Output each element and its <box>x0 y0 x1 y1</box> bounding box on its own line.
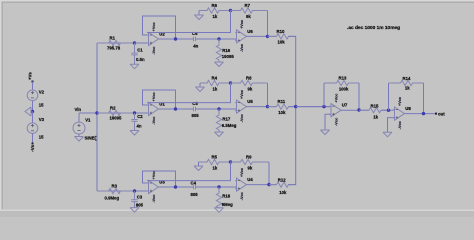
ground R5 <box>194 166 203 171</box>
svg-text:795.78: 795.78 <box>107 45 121 50</box>
svg-text:-Vcc: -Vcc <box>240 44 244 52</box>
svg-text:0.5n: 0.5n <box>136 57 145 62</box>
node U4 out <box>267 183 270 186</box>
wire C5 to U5 <box>196 108 237 110</box>
node U7 out <box>357 108 360 111</box>
node row3 C3 tap <box>133 189 136 192</box>
svg-text:C6: C6 <box>192 31 198 36</box>
resistor R13 <box>324 75 359 91</box>
svg-text:R18: R18 <box>222 193 230 198</box>
svg-text:R6: R6 <box>212 3 218 8</box>
ground R17 <box>215 132 224 137</box>
svg-text:.ac dec 1000 1m 10meg: .ac dec 1000 1m 10meg <box>347 25 400 31</box>
wire V1 to gnd <box>78 134 80 137</box>
wire junction to V3 <box>32 112 34 123</box>
wire R6 gnd stem <box>198 11 200 16</box>
wire R8 to U5 out <box>267 83 269 107</box>
wire R14 left leg <box>388 83 390 110</box>
ground rail (rotated left) <box>25 107 31 116</box>
resistor R18 <box>216 187 233 208</box>
svg-text:R2: R2 <box>110 106 116 111</box>
svg-text:9k: 9k <box>248 166 253 171</box>
svg-text:19095: 19095 <box>110 115 123 120</box>
node U5 out <box>266 105 269 108</box>
resistor R16 <box>216 39 234 62</box>
wire row3 input <box>97 190 149 192</box>
node row2 C2 tap <box>133 111 136 114</box>
wire V1 riser <box>78 113 80 122</box>
svg-text:out: out <box>438 111 445 116</box>
svg-text:R12: R12 <box>278 177 286 182</box>
svg-text:U7: U7 <box>342 103 348 108</box>
voltage source V2 <box>27 89 44 107</box>
wire U6 out <box>247 35 277 37</box>
wire R10 to sum bus <box>289 36 296 106</box>
wire U7 +in to ground <box>325 114 331 130</box>
resistor R10 <box>268 29 296 45</box>
resistor R15 <box>359 104 389 120</box>
node R4 R8 junction <box>229 81 232 84</box>
svg-text:6.5Meg: 6.5Meg <box>222 123 237 128</box>
op-amp U2 <box>147 22 165 54</box>
wire R13 right leg <box>358 83 360 110</box>
svg-text:4n: 4n <box>137 123 142 128</box>
svg-text:C4: C4 <box>191 180 197 185</box>
wire R4 gnd stem <box>199 83 201 87</box>
svg-text:R11: R11 <box>278 99 286 104</box>
wire fb tap to U5 -in <box>147 83 231 103</box>
resistor R2 <box>97 106 135 121</box>
svg-text:805: 805 <box>191 192 199 197</box>
svg-text:15: 15 <box>39 102 44 107</box>
svg-text:-Vcc: -Vcc <box>398 121 402 129</box>
ground R18 <box>215 208 224 213</box>
svg-text:+Vcc: +Vcc <box>240 20 244 29</box>
svg-text:-Vcc: -Vcc <box>240 192 244 200</box>
ground U8 <box>383 132 392 137</box>
resistor R1 <box>97 36 135 51</box>
wire R14 right leg <box>423 83 425 114</box>
capacitor C6 <box>192 31 199 48</box>
svg-text:U6: U6 <box>247 29 253 34</box>
wire U1 out <box>159 108 194 110</box>
op-amp U4 <box>235 168 253 200</box>
wire R11 to U7 <box>289 106 332 108</box>
svg-text:R5: R5 <box>212 155 218 160</box>
svg-text:15: 15 <box>39 134 44 139</box>
svg-text:SINE(): SINE() <box>85 136 98 141</box>
op-amp U1 <box>147 92 165 124</box>
op-amp U3 <box>147 170 165 202</box>
wire R9 to U4 out <box>268 162 270 185</box>
svg-text:10k: 10k <box>279 190 287 195</box>
svg-text:R9: R9 <box>246 155 252 160</box>
resistor R12 <box>269 177 296 195</box>
svg-text:+Vcc: +Vcc <box>240 90 244 99</box>
wire C4 to U4 <box>196 186 237 188</box>
resistor R9 <box>231 155 270 171</box>
svg-text:R17: R17 <box>222 117 230 122</box>
resistor R6 <box>199 3 231 19</box>
svg-text:-Vcc: -Vcc <box>334 118 338 126</box>
node Vin tap <box>95 111 98 114</box>
svg-text:805: 805 <box>192 113 200 118</box>
node -Vs label <box>32 143 34 145</box>
resistor R7 <box>231 3 268 19</box>
wire R7 to U6 out <box>267 11 269 37</box>
svg-text:10k: 10k <box>278 40 286 45</box>
wire R13 left leg <box>323 83 325 107</box>
svg-text:U5: U5 <box>247 99 253 104</box>
svg-text:R16: R16 <box>222 48 230 53</box>
svg-text:1k: 1k <box>213 166 218 171</box>
svg-text:1k: 1k <box>213 14 218 19</box>
resistor R11 <box>268 99 296 115</box>
svg-text:U8: U8 <box>405 106 411 111</box>
svg-text:R7: R7 <box>245 3 251 8</box>
svg-text:1k: 1k <box>405 85 410 90</box>
node U8 out <box>422 112 425 115</box>
op-amp U7 <box>330 94 348 126</box>
capacitor C4 <box>191 180 199 196</box>
svg-text:+Vcc: +Vcc <box>334 94 338 103</box>
resistor R14 <box>389 76 424 90</box>
capacitor C5 <box>192 101 200 118</box>
svg-text:10k: 10k <box>278 110 286 115</box>
node U3 out <box>174 185 177 188</box>
wire row1 input <box>97 42 149 44</box>
wire bus to U7 -in <box>296 106 331 108</box>
svg-text:R4: R4 <box>212 76 218 81</box>
wire fb tap to U6 -in <box>147 11 231 33</box>
node out label <box>435 113 437 115</box>
op-amp U5 <box>235 90 253 122</box>
voltage source V1 <box>73 118 91 134</box>
node U1 out <box>174 107 177 110</box>
svg-text:C5: C5 <box>192 101 198 106</box>
node row1 hp tap <box>217 37 220 40</box>
svg-text:R1: R1 <box>110 36 116 41</box>
svg-text:R8: R8 <box>246 76 252 81</box>
wire U5 out <box>247 106 277 108</box>
svg-text:V2: V2 <box>39 89 45 94</box>
op-amp U6 <box>235 20 253 52</box>
wire +Vs to V2 <box>32 82 34 91</box>
wire V2 to gnd junction <box>32 101 34 112</box>
resistor R4 <box>200 76 231 92</box>
wire C6 to U6 <box>196 38 237 40</box>
wire row1 node to U2 +in <box>135 42 149 44</box>
resistor R8 <box>231 76 268 92</box>
svg-text:R13: R13 <box>339 75 347 80</box>
svg-text:+Vcc: +Vcc <box>240 168 244 177</box>
node U6 out <box>266 35 269 38</box>
node R5 R9 junction <box>229 160 232 163</box>
node row2 hp tap <box>217 107 220 110</box>
wire U4 out <box>247 184 277 186</box>
svg-text:1k: 1k <box>373 114 378 119</box>
svg-text:R3: R3 <box>112 184 118 189</box>
ground R4 <box>196 87 205 92</box>
svg-text:0.9Meg: 0.9Meg <box>105 195 120 200</box>
wire U8 +in to ground <box>388 118 395 133</box>
capacitor C3 <box>130 191 144 212</box>
svg-text:+Vs: +Vs <box>28 72 33 80</box>
svg-text:C3: C3 <box>137 195 143 200</box>
node summing bus <box>294 105 297 108</box>
ground V1 <box>75 137 84 142</box>
node R6 R7 junction <box>229 9 232 12</box>
node U8 -in tap <box>387 109 390 112</box>
wire U7 out <box>341 109 369 111</box>
node R13 tap <box>322 105 325 108</box>
wire U2 out <box>159 38 194 40</box>
svg-text:-Vs: -Vs <box>30 144 35 151</box>
wire R12 to sum bus <box>289 107 296 185</box>
svg-text:-Vcc: -Vcc <box>152 195 156 203</box>
wire fb tap to U4 -in <box>147 162 231 181</box>
svg-text:C1: C1 <box>137 48 143 53</box>
resistor R5 <box>199 155 231 171</box>
wire U2 feedback <box>143 16 176 39</box>
svg-text:R10: R10 <box>277 29 285 34</box>
svg-text:-Vcc: -Vcc <box>152 47 156 55</box>
svg-text:V1: V1 <box>85 118 91 123</box>
svg-text:V3: V3 <box>39 117 45 122</box>
wire U1 feedback <box>143 90 176 109</box>
op-amp U8 <box>393 97 411 129</box>
ground R16 <box>215 62 224 67</box>
svg-text:C2: C2 <box>137 114 143 119</box>
ground R6 <box>195 15 204 20</box>
voltage source V3 <box>27 117 44 139</box>
svg-text:+Vcc: +Vcc <box>152 22 156 31</box>
svg-text:9k: 9k <box>246 14 251 19</box>
svg-text:9k: 9k <box>248 87 253 92</box>
resistor R3 <box>97 184 135 201</box>
svg-text:805: 805 <box>136 203 144 208</box>
wire R15 to U8 <box>382 109 395 111</box>
svg-text:9Meg: 9Meg <box>222 202 233 207</box>
svg-text:1k: 1k <box>213 87 218 92</box>
node U2 out <box>174 37 177 40</box>
node row1 C1 tap <box>133 41 136 44</box>
node rail mid <box>31 110 34 113</box>
capacitor C1 <box>130 43 145 69</box>
wire input bus vertical <box>96 43 98 191</box>
svg-text:19095: 19095 <box>222 54 235 59</box>
svg-text:R15: R15 <box>371 104 379 109</box>
capacitor C2 <box>130 113 143 135</box>
ground U7 <box>321 130 330 135</box>
wire Vin to bus <box>79 112 97 114</box>
wire U3 out <box>159 186 194 188</box>
wire V3 to -Vs <box>32 134 34 144</box>
wire U3 feedback <box>143 171 176 187</box>
svg-text:-Vcc: -Vcc <box>152 117 156 125</box>
resistor R17 <box>216 109 236 132</box>
svg-text:R14: R14 <box>403 76 411 81</box>
svg-text:+Vcc: +Vcc <box>398 97 402 106</box>
svg-text:+Vcc: +Vcc <box>152 92 156 101</box>
svg-text:-Vcc: -Vcc <box>240 114 244 122</box>
svg-text:+Vcc: +Vcc <box>152 170 156 179</box>
svg-text:4n: 4n <box>193 44 198 49</box>
svg-text:Vin: Vin <box>75 107 82 112</box>
wire R5 gnd stem <box>198 162 200 166</box>
svg-text:U4: U4 <box>247 177 253 182</box>
wire U8 out <box>405 113 437 115</box>
wire row2 input <box>97 112 149 114</box>
node row3 hp tap <box>217 185 220 188</box>
svg-text:100k: 100k <box>339 86 349 91</box>
